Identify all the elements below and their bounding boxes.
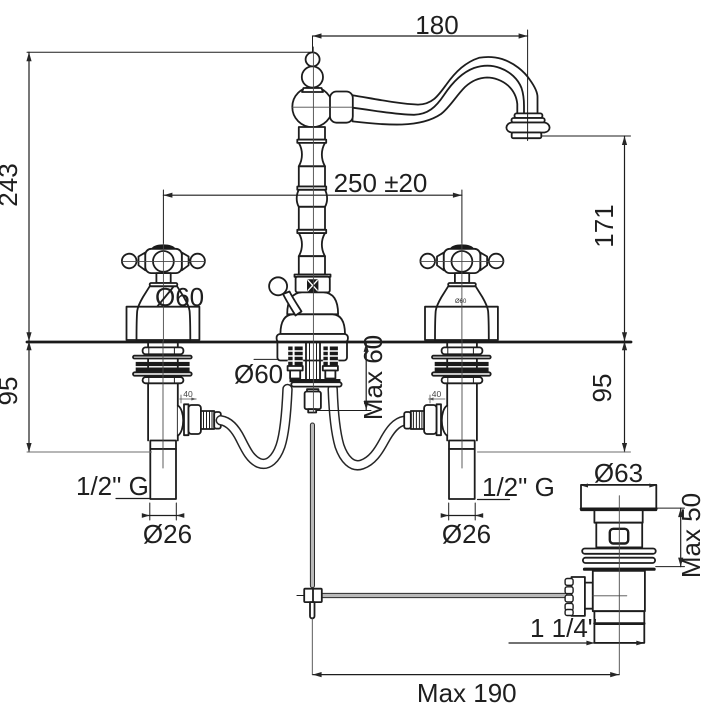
tiny 40 left (180, 395, 197, 403)
spout tube (353, 57, 538, 125)
dimension Max50 (656, 508, 685, 566)
set screw (307, 279, 318, 291)
left 1/2G leader (116, 498, 150, 500)
mounting stud left (288, 347, 303, 379)
svg-text:Ø60: Ø60 (234, 359, 283, 389)
svg-text:Ø26: Ø26 (442, 519, 491, 549)
drain tail (594, 624, 644, 643)
drain ring (594, 611, 644, 624)
dimension 95 left (26, 341, 151, 452)
dimension 1 1/4 (509, 641, 644, 646)
spout finial ball small (306, 52, 320, 66)
svg-text:171: 171 (589, 204, 619, 247)
rod stub below clamp (310, 602, 315, 618)
drain washers (582, 549, 656, 571)
svg-text:Max 60: Max 60 (358, 335, 388, 420)
drain neck (594, 510, 642, 523)
right handle (420, 244, 503, 340)
left handle (122, 244, 205, 340)
deck line (27, 341, 631, 344)
svg-text:250 ±20: 250 ±20 (334, 168, 428, 198)
svg-text:40: 40 (183, 389, 193, 399)
drain knob (565, 577, 593, 616)
pop-up rod (310, 423, 314, 588)
right hose braid (404, 411, 424, 429)
dimension Ø26 left (142, 503, 185, 520)
drain upper body (596, 523, 642, 548)
left hose (221, 389, 288, 464)
spout outlet (506, 113, 549, 138)
svg-text:1/2" G: 1/2" G (482, 472, 555, 502)
left hose braid (201, 411, 221, 429)
svg-text:Ø63: Ø63 (594, 458, 643, 488)
svg-text:243: 243 (0, 163, 23, 206)
center base plate (277, 334, 348, 342)
dimension 180 (313, 30, 528, 141)
centerlines (122, 47, 627, 675)
dimension 243 (26, 52, 311, 341)
spout finial ball large (302, 66, 323, 87)
right 1/2G leader (478, 499, 510, 501)
spout joint barrel (330, 92, 353, 123)
svg-text:95: 95 (587, 374, 617, 403)
tiny 40 right (429, 395, 446, 403)
svg-text:1/2" G: 1/2" G (76, 471, 149, 501)
dimension Max60 (317, 343, 372, 411)
spout body ball (292, 87, 332, 127)
svg-text:40: 40 (432, 389, 442, 399)
svg-text:Max 50: Max 50 (676, 493, 706, 578)
right hose (333, 389, 405, 465)
svg-text:95: 95 (0, 377, 23, 406)
center bell tier1 (287, 292, 338, 314)
pop-up lever (269, 277, 301, 315)
drain lower body (593, 571, 645, 611)
svg-text:1 1/4": 1 1/4" (530, 613, 597, 643)
drain flange (581, 484, 656, 511)
column (297, 127, 327, 275)
right valve under deck (424, 341, 491, 499)
svg-text:Max 190: Max 190 (417, 678, 517, 708)
center escutcheon below deck (277, 343, 347, 361)
svg-text:Ø60: Ø60 (155, 282, 204, 312)
svg-text:Ø60: Ø60 (455, 299, 467, 305)
svg-text:180: 180 (415, 10, 458, 40)
center Ø60 leader (254, 358, 277, 360)
spout collar (302, 88, 323, 92)
drain window (610, 529, 628, 544)
mounting stud right (323, 347, 338, 379)
dimension Max190 (313, 672, 620, 677)
column cartridge box (295, 275, 331, 277)
rod clamp block (297, 589, 322, 602)
center shank under deck (306, 343, 320, 380)
supply connector block (305, 389, 321, 412)
dimension 171 and 95 right (478, 136, 631, 452)
dimension 250 pm20 line (163, 190, 462, 244)
center bell tier2 (280, 314, 345, 334)
left valve under deck (133, 341, 201, 499)
svg-text:Ø26: Ø26 (143, 519, 192, 549)
dimension Ø26 right (441, 503, 484, 520)
mounting bracket (290, 379, 342, 387)
horizontal rod (322, 593, 567, 597)
